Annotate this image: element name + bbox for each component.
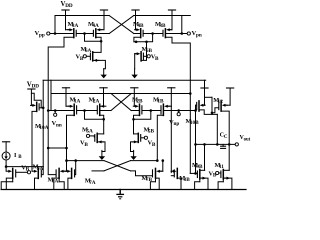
wire Vpn rail right	[134, 15, 191, 17]
transistor M12	[213, 97, 230, 111]
transistor M11	[215, 144, 230, 179]
transistor M2B	[132, 96, 143, 115]
node Vnp terminal	[164, 109, 195, 127]
VDD tap for M10B	[201, 80, 208, 105]
VDD tap for M10A	[28, 89, 35, 105]
svg-text:pn: pn	[196, 32, 202, 38]
wire M2A bulk to X	[100, 110, 111, 112]
VDD tap for M2B	[131, 88, 138, 106]
wire M10A drain long	[32, 111, 37, 171]
wire M4B drain diode	[134, 34, 153, 44]
svg-text:5B: 5B	[148, 129, 155, 135]
svg-text:nn: nn	[56, 122, 62, 128]
transistor M9A	[32, 164, 43, 179]
wire M7B bulk	[150, 178, 155, 189]
wire M2B drain	[132, 115, 139, 134]
transistor M7A	[65, 168, 95, 185]
VDD tap for M4B	[132, 10, 139, 30]
wire M2A drain	[100, 115, 105, 134]
wire X to M2B bulk	[131, 110, 139, 112]
capacitor Cc	[220, 132, 228, 149]
svg-text:pp: pp	[39, 32, 45, 38]
svg-text:8B: 8B	[184, 177, 191, 183]
node Vpp terminal	[35, 30, 56, 38]
wire M8A drain	[54, 178, 59, 189]
wire M9A drain	[35, 178, 39, 189]
wire gate M1A-M2A	[77, 109, 97, 112]
wire MB drain	[6, 178, 12, 189]
transistor M3A	[66, 21, 79, 38]
wire gate M4B-M3B	[144, 32, 163, 35]
svg-text:out: out	[244, 137, 251, 142]
wire M9B source	[200, 177, 208, 190]
wire M1B tap down	[170, 106, 172, 172]
transistor M8B	[171, 168, 190, 183]
VDD tap for M1A	[62, 88, 69, 106]
transistor M10A diode-connected	[31, 93, 49, 131]
wire MB bulk	[1, 178, 13, 189]
wire M8A gate	[47, 147, 56, 175]
wire bias bus	[43, 79, 206, 81]
ground under M5A	[99, 150, 105, 160]
svg-text:DD: DD	[65, 3, 73, 9]
VDD tap for M3A	[62, 10, 69, 30]
transistor M1B	[153, 96, 171, 115]
wire M8A bulk	[59, 178, 64, 189]
wire M8B drain	[177, 178, 181, 189]
transistor M5A	[80, 126, 97, 148]
wire M11 bulk	[218, 178, 223, 189]
svg-text:B: B	[84, 142, 88, 148]
cross-coupling X top	[109, 16, 134, 34]
VDD tap for M3B	[168, 10, 175, 30]
wire M1A drain long	[67, 115, 75, 148]
wire M5A source	[97, 140, 105, 151]
wire M9B drain up	[203, 143, 206, 170]
VDD tap for M12	[227, 88, 234, 105]
wire M3A drain	[48, 37, 74, 148]
svg-text:7A: 7A	[89, 180, 96, 186]
wire X to M7B	[131, 159, 165, 171]
wire M9B gate	[190, 172, 197, 175]
svg-text:10B: 10B	[190, 120, 199, 126]
power VDD label 2	[27, 81, 39, 89]
wire M12 drain	[221, 111, 230, 146]
svg-text:7B: 7B	[146, 177, 153, 183]
transistor M3B	[155, 21, 172, 38]
transistor M2A	[89, 96, 106, 115]
wire M6A source	[93, 59, 106, 69]
wire X to M4B bulk	[134, 33, 140, 35]
wire M9B bulk	[195, 178, 200, 189]
ground under M6A	[101, 69, 107, 79]
wire rail end vert	[50, 80, 52, 110]
current source IB	[2, 142, 22, 160]
wire cross link	[48, 147, 68, 172]
wire output node	[194, 143, 235, 146]
cross-coupling X middle	[111, 94, 131, 111]
wire mid rail	[51, 92, 192, 95]
wire Vpp junction	[54, 16, 73, 35]
svg-text:8A: 8A	[52, 179, 59, 185]
wire M6B source	[135, 52, 141, 69]
wire M4A drain diode	[85, 34, 103, 43]
wire M3B bulk to Vpn	[166, 33, 182, 35]
transistor MB bias	[7, 164, 31, 178]
transistor M8A	[48, 168, 67, 184]
wire M7A gate	[74, 161, 77, 175]
wire M7B drain	[156, 178, 160, 189]
ground under M6B	[131, 69, 137, 79]
wire Vpp rail left	[55, 15, 109, 17]
wire M5A drain	[97, 133, 104, 135]
ground under M5B	[130, 150, 136, 160]
wire M7A source feed	[65, 159, 104, 162]
wire M7B gate	[131, 171, 153, 176]
transistor M5B	[138, 126, 156, 148]
wire M3B drain long	[165, 37, 190, 173]
cross-coupling X bottom	[92, 161, 131, 171]
transistor M10B	[186, 101, 206, 126]
wire M10B drain	[199, 97, 219, 145]
svg-text:np: np	[173, 121, 179, 127]
wire M12 gate	[212, 108, 218, 113]
transistor M4A	[88, 21, 104, 38]
wire M1B drain	[157, 115, 163, 160]
wire IB down	[5, 160, 8, 171]
wire M7A drain	[68, 178, 72, 189]
svg-text:10A: 10A	[39, 125, 48, 131]
wire right vert bulk	[194, 105, 197, 173]
node Vnn terminal	[47, 109, 74, 128]
transistor M6B	[141, 46, 159, 62]
wire M8B gate	[171, 175, 174, 177]
VDD tap for M2A	[100, 88, 107, 106]
ground rail bottom	[1, 189, 246, 191]
wire M11 source	[223, 177, 232, 190]
svg-text:B: B	[152, 142, 156, 148]
ground symbol bottom	[117, 190, 123, 199]
transistor M4B	[133, 21, 144, 38]
wire M6A drain	[93, 41, 101, 52]
svg-text:3A: 3A	[72, 23, 79, 29]
wire gate M2B-M1B	[142, 109, 160, 112]
svg-text:C: C	[224, 135, 228, 140]
wire mirror drop M5B	[134, 111, 151, 120]
wire M4A bulk to X	[97, 33, 110, 35]
transistor M6A	[76, 46, 93, 62]
svg-text:B: B	[155, 56, 159, 62]
svg-text:2A: 2A	[93, 99, 100, 105]
VDD tap for M1B	[168, 88, 175, 106]
transistor M7B	[142, 168, 163, 183]
wire M10B gate	[195, 104, 198, 106]
wire gate M3A-M4A	[77, 32, 93, 35]
wire mirror drop M5A	[85, 111, 104, 120]
wire M6B drain	[141, 41, 148, 61]
power rail VDD label	[61, 1, 73, 9]
transistor M1A	[66, 96, 81, 115]
node Vout terminal	[235, 135, 250, 146]
node Vpn terminal	[181, 16, 202, 39]
wire M11 gate VB	[209, 171, 221, 179]
wire bias bus left drop	[42, 80, 45, 166]
VDD tap for M4A	[100, 10, 107, 30]
svg-text:5A: 5A	[86, 129, 93, 135]
transistor M9B	[192, 162, 205, 179]
wire M9A gate drop	[42, 167, 43, 175]
wire IB to gates	[6, 166, 43, 168]
wire M5B drain	[134, 133, 139, 135]
wire M5B source	[131, 140, 139, 151]
